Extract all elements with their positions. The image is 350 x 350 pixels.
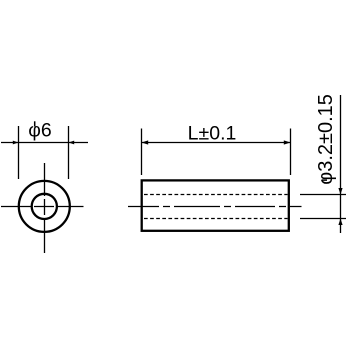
front view: outer circle (OD 6) (19, 181, 70, 232)
dim L: right extension line (290, 129, 292, 176)
dim phi6: right arrowhead (outside, pointing left) (69, 141, 75, 145)
front view: vertical center line (44, 163, 46, 253)
dim L: left extension line (141, 129, 143, 176)
dim phi6: phi stem top extension (34, 121, 36, 126)
dim phi3.2: upper arrowhead (outside, pointing down) (338, 188, 342, 195)
dim phi6: left extension line (18, 126, 20, 179)
dim L: left arrowhead (inside, pointing left) (142, 140, 149, 144)
dim phi3.2: vertical dimension line (340, 95, 342, 233)
front view: horizontal center line (1, 206, 84, 208)
front view: inner circle (hole 3.2) (32, 194, 57, 219)
side view: axis center line (128, 206, 302, 208)
dim phi6: dimension line (1, 142, 88, 144)
dim L: right arrowhead (inside, pointing right) (284, 140, 291, 144)
dim phi6: left arrowhead (outside, pointing right) (13, 141, 19, 145)
svg-text:φ6: φ6 (28, 120, 52, 142)
dim phi3.2: upper extension line (300, 194, 346, 196)
side view: upper hidden line (hole) (144, 194, 288, 196)
dim L: dimension line (142, 142, 291, 144)
side view: body rectangle (142, 180, 289, 230)
side view: lower hidden line (hole) (144, 218, 288, 220)
dim phi6: right extension line (68, 126, 70, 179)
dim phi3.2: lower extension line (300, 218, 346, 220)
svg-text:φ3.2±0.15: φ3.2±0.15 (315, 94, 337, 185)
svg-text:L±0.1: L±0.1 (188, 123, 237, 145)
dim phi3.2: phi stem top extension (322, 179, 327, 181)
dim phi3.2: lower arrowhead (outside, pointing up) (338, 219, 342, 226)
